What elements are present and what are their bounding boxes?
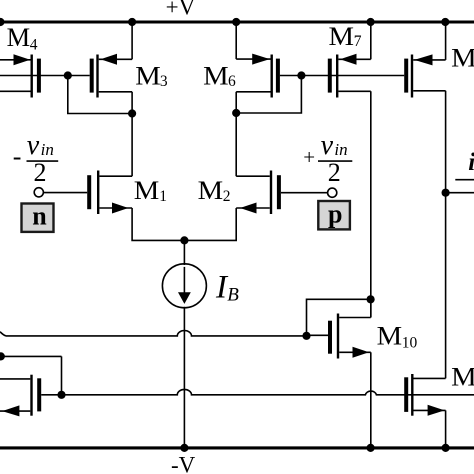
wire M5 source down to -V — [445, 410, 447, 448]
wire M10 drain up to node E — [370, 299, 372, 317]
junction dot +V rail left edge — [0, 18, 5, 26]
svg-text:2: 2 — [34, 158, 47, 187]
+V power rail — [0, 20, 474, 23]
wire node D down to node C — [236, 76, 301, 114]
wire M8 source up to +V — [445, 22, 447, 60]
junction dot +V rail / M8 source — [441, 18, 449, 26]
junction dot +V rail / M6 source — [232, 18, 240, 26]
label -vin/2 — [13, 130, 58, 187]
svg-text:v: v — [27, 130, 40, 161]
svg-text:2: 2 — [328, 158, 341, 187]
label +vin/2 — [303, 130, 352, 187]
svg-text:-V: -V — [171, 453, 196, 474]
junction dot -V rail / tail current — [180, 444, 188, 452]
n terminal box — [22, 204, 54, 232]
input terminal circle p — [328, 188, 337, 197]
wire M1 source to tail node — [132, 208, 236, 240]
junction node A (M4/M3 gates) — [64, 71, 72, 79]
svg-text:in: in — [334, 140, 347, 159]
svg-text:2: 2 — [223, 188, 231, 205]
wire M10 source down to -V — [370, 352, 372, 448]
wire node A down to node B — [68, 76, 132, 114]
svg-text:+V: +V — [166, 0, 196, 19]
svg-text:+: + — [303, 145, 315, 169]
wire M10 gate lead — [307, 334, 329, 336]
svg-text:4: 4 — [30, 36, 38, 53]
svg-text:1: 1 — [159, 188, 167, 205]
wire M3 drain down to node B — [131, 92, 133, 176]
transistor M7 — [330, 54, 371, 98]
wire M10 gate node to left edge (hop over tail wire) — [0, 331, 307, 336]
wire output to right edge — [446, 192, 474, 194]
junction tail node — [180, 236, 188, 244]
wire M6 source up to +V — [235, 22, 237, 59]
junction output node — [442, 189, 450, 197]
wire current source down to -V — [183, 307, 185, 448]
wire M1 gate to n input — [44, 192, 87, 194]
junction dot -V rail / M10 source — [367, 444, 375, 452]
transistor M4 — [0, 54, 39, 97]
transistor M5 — [406, 374, 445, 416]
junction dot +V rail / M7 source — [367, 18, 375, 26]
junction node C (M6 drain / M2 drain) — [232, 109, 240, 117]
svg-text:7: 7 — [354, 33, 362, 50]
junction node B (M3 drain / M1 drain) — [128, 109, 136, 117]
wire M7 drain down to node E — [370, 91, 372, 317]
svg-text:M: M — [377, 322, 403, 351]
junction M10 gate node — [302, 332, 310, 340]
svg-text:M: M — [203, 62, 229, 91]
svg-text:M: M — [329, 22, 355, 51]
svg-text:M: M — [198, 176, 224, 205]
junction node D (M6/M7 gates) — [297, 71, 305, 79]
wire M2 gate to p input — [281, 192, 328, 194]
svg-text:10: 10 — [402, 335, 418, 352]
wire tail node down to current source — [183, 240, 185, 265]
svg-text:M: M — [135, 62, 161, 91]
junction dot +V rail / M3 source — [128, 18, 136, 26]
transistor M6 — [236, 54, 278, 98]
wire node E to M10 gate node — [307, 299, 371, 336]
svg-text:in: in — [41, 140, 54, 159]
junction node E (M7 drain / M10 drain) — [367, 295, 375, 303]
wire M6/M7/M8 gate line — [280, 75, 404, 77]
svg-text:B: B — [227, 285, 239, 306]
wire M9/M5 gate line (hops over two verticals) — [41, 389, 474, 394]
transistor M1 — [89, 171, 132, 215]
transistor M8 — [406, 54, 445, 97]
wire M7 source up to +V — [370, 22, 372, 59]
svg-text:M: M — [451, 363, 474, 392]
svg-text:M: M — [451, 43, 474, 72]
svg-text:-: - — [13, 142, 22, 171]
transistor M9 (bottom left, unlabeled) — [0, 375, 39, 417]
transistor M10 — [330, 314, 371, 359]
svg-text:n: n — [32, 201, 47, 230]
svg-text:M: M — [7, 23, 30, 52]
svg-text:i: i — [468, 149, 474, 176]
input terminal circle n — [34, 188, 43, 197]
svg-text:v: v — [321, 130, 334, 161]
current source IB — [162, 264, 206, 308]
wire bias net down to gate wire — [61, 356, 63, 394]
wire M6 drain down to node C — [235, 92, 237, 176]
label output fraction bar (cut at edge) — [455, 179, 474, 181]
svg-text:6: 6 — [228, 73, 236, 90]
svg-text:M: M — [134, 176, 160, 205]
junction at left edge bias net — [0, 352, 5, 360]
svg-text:p: p — [328, 199, 342, 228]
transistor M2 — [236, 171, 279, 215]
p terminal box — [318, 201, 350, 229]
wire M4 gate line to node A — [0, 75, 90, 77]
-V power rail — [0, 446, 474, 449]
wire M8 drain down to M5 drain — [445, 91, 447, 379]
wire left bias net from edge — [0, 355, 62, 357]
junction dot -V rail / M5 source — [442, 444, 450, 452]
svg-text:3: 3 — [160, 73, 168, 90]
junction M9/M5 gate node — [57, 391, 65, 399]
transistor M3 — [92, 54, 132, 98]
wire M3 source up to +V — [131, 22, 133, 59]
